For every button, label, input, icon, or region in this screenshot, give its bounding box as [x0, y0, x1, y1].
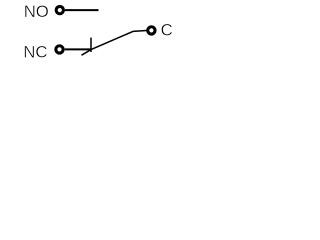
terminal NO: [56, 6, 63, 13]
wire NO stub: [65, 9, 99, 11]
wire NC stub: [65, 48, 92, 50]
armature (common pole arm): [82, 31, 147, 56]
terminal C: [148, 27, 155, 34]
NC fixed contact tick: [90, 38, 92, 52]
svg-text:NC: NC: [23, 43, 47, 62]
svg-text:C: C: [161, 20, 173, 39]
svg-text:NO: NO: [24, 2, 49, 21]
terminal NC: [56, 46, 63, 53]
